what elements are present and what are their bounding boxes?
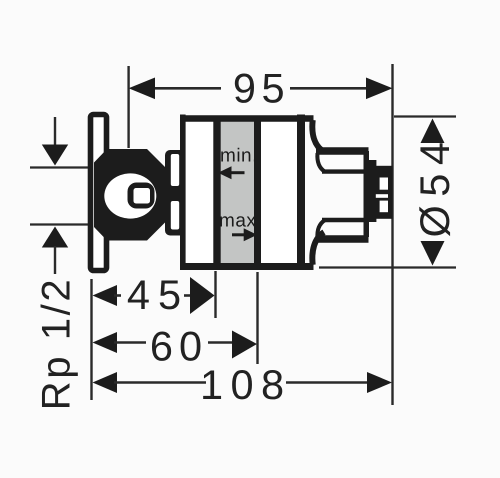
spline notch upper (white) (380, 178, 388, 190)
connector slot upper (171, 154, 179, 186)
spline groove (white) (376, 194, 388, 198)
arrow min (left) (218, 166, 232, 179)
body left wall (180, 115, 186, 270)
wire: extension line 45 (min position) (214, 271, 216, 318)
hex nut silhouette (94, 149, 168, 241)
wire: Rp1/2 lower stub (54, 246, 56, 274)
shoulder curve bottom outer (312, 232, 324, 265)
neck end face outer step (364, 151, 370, 237)
wire: extension line right end (95/108 dims) (391, 64, 393, 405)
spline notch lower (white) (380, 201, 388, 213)
spindle bore (white circle) (104, 173, 156, 218)
wire: 108 right segment (286, 381, 368, 384)
seal zone gray band (219, 118, 256, 265)
connector slot lower (171, 201, 179, 230)
shoulder curve top outer (312, 120, 324, 152)
wire: 60 left segment (114, 341, 146, 344)
arrowhead 60 right (232, 331, 257, 359)
wire: 108 left segment (114, 381, 206, 384)
wall plate (edge view) (91, 115, 107, 271)
body top edge (180, 115, 314, 121)
arrowhead 45 left (93, 285, 118, 306)
divider max position (254, 120, 261, 264)
svg-text:Rp 1/2: Rp 1/2 (35, 277, 79, 410)
arrowhead Rp1/2 up (42, 227, 68, 248)
arrowhead 108 right (367, 372, 392, 393)
svg-text:45: 45 (127, 271, 189, 318)
divider min position (213, 120, 220, 264)
wire: Rp1/2 upper stub (54, 117, 56, 146)
neck end face inner step (nipple base) (369, 160, 376, 222)
wire: extension line 60 (max position) (256, 272, 258, 364)
dimension 95 line right segment (290, 87, 376, 90)
wire: diameter 54 top extension line (394, 115, 456, 117)
arrowhead 60 left (93, 332, 118, 353)
neck bottom contour (316, 235, 369, 242)
shoulder curve top inner (317, 153, 325, 172)
arrowhead diameter 54 up (421, 119, 445, 144)
neck top contour (316, 147, 369, 154)
connector sleeve between nut and body (165, 150, 186, 236)
dimension 95 line left segment (152, 87, 221, 90)
valve body interior (183, 118, 301, 267)
body bottom edge (180, 263, 314, 270)
wire: extension line left of 45/60/108 dims (90, 279, 92, 400)
body right wall (297, 115, 305, 270)
svg-text:8: 8 (261, 361, 288, 408)
arrowhead 95 right (366, 78, 393, 100)
arrowhead 95 left (129, 78, 155, 100)
neck inner bottom line (322, 218, 367, 222)
svg-text:Ø54: Ø54 (411, 134, 458, 238)
shoulder curve bottom inner (317, 220, 325, 239)
wire: 45 left stub (114, 294, 121, 297)
arrowhead 108 left (93, 372, 118, 393)
svg-text:1: 1 (200, 361, 227, 408)
wire: 60 right segment (208, 341, 232, 344)
wire: diameter 54 bottom extension line (319, 266, 456, 268)
svg-text:max.: max. (219, 211, 262, 232)
arrowhead diameter 54 down (421, 241, 445, 266)
neck inner top line (322, 169, 367, 173)
slot opening (white) (134, 188, 151, 204)
arrowhead 45 right (large) (190, 277, 215, 314)
wire: Rp1/2 lower reference line (30, 223, 88, 225)
svg-text:95: 95 (233, 65, 290, 112)
arrowhead Rp1/2 down (42, 145, 68, 166)
wire: extension line left of 95 dim (127, 66, 129, 148)
wire: Rp1/2 upper reference line (30, 166, 88, 168)
spindle end with slot (128, 183, 155, 209)
wire: 45 right stub (184, 294, 193, 297)
spline shaft block (376, 166, 393, 219)
svg-text:min.: min. (220, 146, 258, 167)
arrow max (right) (232, 233, 248, 236)
svg-text:0: 0 (230, 361, 257, 408)
